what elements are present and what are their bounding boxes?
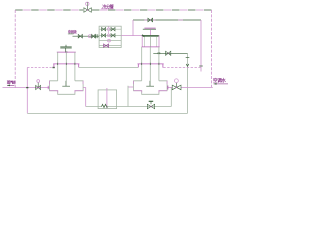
wire: sensing drop vertical to bottom loop <box>187 53 189 113</box>
valve V7 <box>78 34 82 38</box>
manifold branch 1 <box>99 26 121 31</box>
valve V2 on bypass <box>148 18 153 22</box>
flange tick on inlet <box>47 86 49 89</box>
tower T2 inlet stub <box>128 86 134 88</box>
tower T1 body <box>50 81 84 95</box>
arrow: inlet flow arrow <box>7 84 14 86</box>
steam trap box <box>98 90 117 109</box>
underline below middle text <box>68 33 74 35</box>
manifold box <box>99 26 121 47</box>
arrow tick on sensing drop <box>186 64 189 66</box>
manifold branch 3 (gauge) <box>99 39 121 42</box>
wire: manifold to tower2 pilot <box>121 35 142 37</box>
svg-text:空调水: 空调水 <box>213 77 226 84</box>
wire: outlet line <box>181 86 213 88</box>
tower T2 outer risers down to body <box>142 47 159 81</box>
valve V1 on top line <box>84 2 91 12</box>
valve V5 on inlet <box>36 80 41 90</box>
wire: left loop vertical <box>26 68 28 114</box>
tick on bypass right drop <box>199 65 203 67</box>
tower T1 center stem <box>65 52 67 81</box>
tower T2 pilot box sides <box>142 35 159 47</box>
tower T2 pilot box top bar <box>142 35 159 37</box>
wire: line into manifold left <box>73 35 100 37</box>
flange tick on sensing drop <box>186 57 190 59</box>
svg-text:中间级: 中间级 <box>68 29 78 34</box>
wire: sensing line from tower2 riser <box>153 52 187 54</box>
wire: bottom loop <box>27 112 187 114</box>
wire: interconnect tower1 to tower2 <box>79 66 139 68</box>
tower T1 upper flange <box>57 51 76 53</box>
tower T2 center stem <box>149 47 151 81</box>
tower T2 lower flange <box>138 63 164 65</box>
wire: top dashed signal line (green phase) <box>15 9 211 11</box>
junction dot at loop crossing <box>26 87 28 89</box>
tower T2 bonnet side steps <box>138 64 163 68</box>
wire: bypass left drop <box>132 20 134 36</box>
arrow: outlet flow arrow <box>214 83 229 85</box>
flange tick before manifold <box>96 34 98 38</box>
zigzag in trap <box>102 104 108 107</box>
tower T1 pilot tee <box>60 47 71 48</box>
tower T2 outlet stub <box>167 86 172 88</box>
wire: underline below top text <box>101 8 114 10</box>
manifold branch 4 <box>99 44 121 47</box>
wire: top dashed signal line (magenta phase) <box>15 9 211 11</box>
valve V3 on sensing line <box>166 51 171 55</box>
wire: dashed sensing line tower2 right <box>163 67 201 69</box>
wire: right vertical dashed line <box>211 10 213 87</box>
tower T2 pilot box stem <box>150 36 152 47</box>
tower T1 body corner accents <box>50 81 84 93</box>
tower T2 top tee <box>144 27 155 29</box>
tower T2 box bottom flange <box>142 46 160 48</box>
wire: bypass right drop <box>200 20 202 72</box>
valve V4 on drain line <box>147 101 154 108</box>
tower T1 plug <box>62 81 70 86</box>
junction blob tower1 left stub <box>53 67 55 69</box>
tower T2 pilot box inner verticals <box>145 37 157 47</box>
tower T1 lower flange <box>53 63 79 65</box>
wire: left vertical dashed line <box>14 10 16 88</box>
tower T1 outer risers down to body <box>58 52 75 81</box>
valve V6 outlet valve <box>172 79 181 90</box>
junction blob on riser <box>158 52 161 54</box>
wire: interconnect left dashed (loop to tower1) <box>27 67 52 69</box>
wire: drain line through trap <box>86 106 172 108</box>
wire: vertical through trap box <box>106 88 108 108</box>
manifold branch 2 <box>99 31 121 37</box>
wire: T2 inlet drop to drain line <box>127 86 129 107</box>
tower T2 body corner accents <box>134 81 168 93</box>
valve V8 with ball circle <box>88 35 91 38</box>
tower T1 bonnet side steps <box>54 64 79 68</box>
tower T1 outlet elbow down <box>83 88 86 107</box>
wire: bypass line (dark green) <box>133 19 201 21</box>
tower T2 body <box>134 81 168 95</box>
tower T2 plug <box>146 81 154 86</box>
wire: inlet line <box>3 87 50 89</box>
